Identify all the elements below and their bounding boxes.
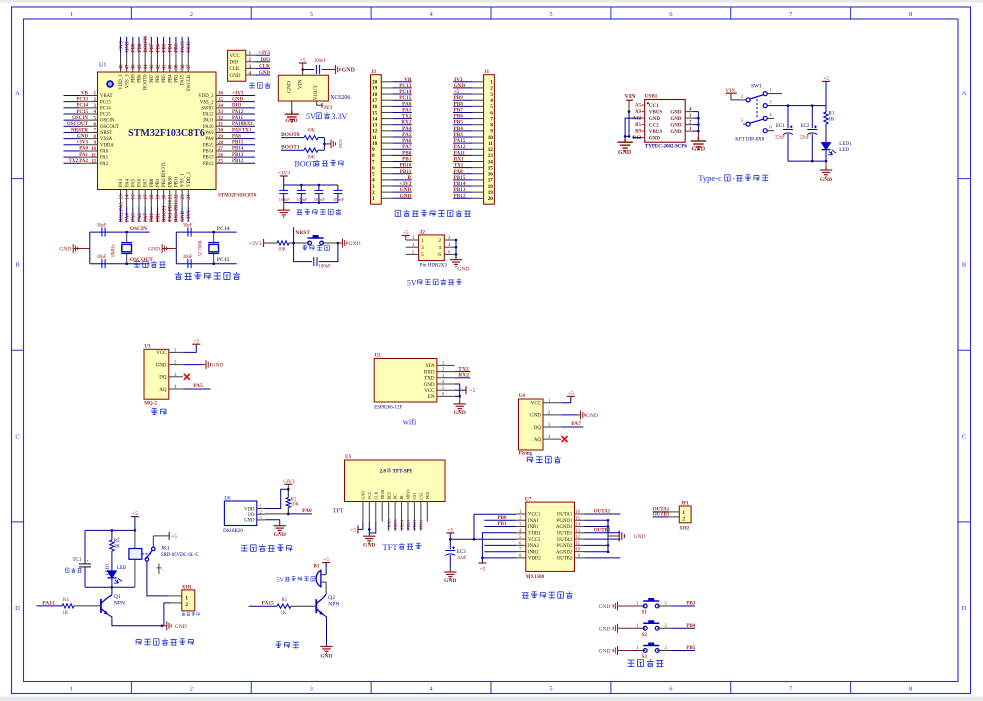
caption relay output [136,638,194,645]
svg-text:PB12: PB12 [412,519,417,530]
svg-text:PB10: PB10 [399,163,411,169]
svg-text:19: 19 [488,190,494,196]
GND of TFT [363,533,375,549]
svg-text:A: A [962,90,967,97]
svg-text:NRSTR: NRSTR [71,128,88,133]
svg-text:INA1: INA1 [528,519,540,524]
U1 top pin 41 PB5 net PB5 [162,37,167,83]
svg-text:GND: GND [338,140,343,149]
svg-text:GND: GND [586,413,598,419]
power +5 relay contact [153,532,177,547]
svg-text:GND: GND [175,624,187,630]
svg-text:1K: 1K [114,545,120,550]
wire SW1 pin3 to +5 rail [767,104,826,107]
svg-text:PA7: PA7 [571,421,581,427]
caption 5V step down 3.3V [306,112,348,121]
svg-text:Flying: Flying [519,452,533,457]
svg-text:EN: EN [428,395,435,400]
svg-text:30pF: 30pF [97,255,107,260]
svg-text:PB13: PB13 [454,187,466,193]
wire USB1 right gnd bus [693,112,700,133]
svg-text:47: 47 [125,64,130,70]
svg-text:PA15: PA15 [181,74,186,85]
svg-text:32.768K: 32.768K [199,240,204,257]
svg-text:GND: GND [287,81,293,93]
svg-text:PB9: PB9 [454,95,464,101]
svg-text:21: 21 [169,194,174,200]
U1 bottom pin 21 PB10 net TX3 PB10 [168,176,173,222]
resistor R2 10K [286,489,299,514]
svg-text:KFT DIP-8X8: KFT DIP-8X8 [735,137,764,142]
svg-text:6: 6 [372,165,375,171]
caption BOOT setting [295,160,344,169]
svg-text:USB1: USB1 [645,94,658,100]
U1 bottom pin 14 PA4 net PA4 [125,178,130,222]
svg-text:PC15: PC15 [399,95,412,101]
U1 bottom pin 13 PA3 net RX2 PA3 [119,178,124,222]
connector USB1 TYPEC [632,94,692,150]
GND of MQ-2 [183,360,223,369]
U1 top pin 42 PB6 net PB6 [156,37,161,83]
svg-text:VIN: VIN [625,94,637,100]
svg-text:16: 16 [372,104,378,110]
svg-text:16: 16 [488,172,494,178]
power +5 into XC6206 [299,58,307,76]
svg-text:VCC: VCC [230,54,241,59]
svg-text:+5: +5 [193,339,199,345]
wire TFT GND/VCC/CLK [358,522,376,533]
svg-text:PA4: PA4 [402,126,412,132]
svg-text:Q2: Q2 [328,595,335,601]
svg-text:PB15: PB15 [454,175,466,181]
svg-text:VDD1: VDD1 [528,532,541,537]
svg-text:GND: GND [670,130,682,135]
svg-text:DC: DC [393,494,398,500]
svg-text:A: A [15,90,20,97]
svg-text:PA0: PA0 [302,508,312,514]
power +5 EC3 [446,527,454,539]
U1 left pin 1 VBAT net VB [64,91,113,99]
GND of buzzer [320,643,332,659]
crystal circuit 8MHz [59,224,153,269]
U1 right pin 32 PA11 net PA11 [203,116,255,124]
svg-text:GND: GND [424,383,435,388]
U1 left pin 8 VSSA net GND [64,134,113,142]
svg-text:CC1: CC1 [649,104,659,109]
U5 pin 11 PEN [426,502,428,522]
wire U7 pin6 pin7 [484,544,516,546]
svg-text:VOUT: VOUT [313,84,319,100]
caption DC motor drive [522,591,572,598]
resistor R4 1K [62,598,101,616]
svg-text:1: 1 [490,80,493,86]
svg-text:SWCLK: SWCLK [187,74,192,91]
svg-text:+3V3: +3V3 [282,479,295,485]
app background strip top [0,0,983,3]
svg-text:INB2: INB2 [528,550,539,555]
svg-text:VCC: VCC [156,351,167,356]
svg-text:PB9: PB9 [132,43,137,52]
connector download port (VCC DIO CLK GND) [228,50,271,81]
wire RX2 from wifi [455,373,471,379]
svg-text:1K: 1K [829,118,836,123]
svg-text:GND: GND [125,41,130,53]
wire BOOT junction [323,138,325,151]
svg-text:PB7: PB7 [454,107,464,113]
svg-text:22: 22 [175,194,180,200]
svg-text:1K: 1K [281,611,287,616]
svg-text:40: 40 [169,64,174,70]
svg-text:1: 1 [421,238,424,244]
svg-text:OUTA1: OUTA1 [594,510,611,515]
svg-text:41: 41 [162,64,167,70]
svg-text:PB4: PB4 [454,126,464,132]
svg-text:PB15: PB15 [393,519,398,530]
push button reset [308,235,324,245]
svg-text:GND: GND [692,147,706,153]
svg-text:2: 2 [490,86,493,92]
svg-text:BL: BL [399,494,404,500]
svg-text:PB3: PB3 [686,602,695,607]
svg-text:9: 9 [490,129,493,135]
svg-text:3: 3 [421,245,424,251]
svg-text:DS18B20: DS18B20 [223,529,243,534]
svg-text:PA7: PA7 [144,213,149,222]
U1 top pin 46 PB9 net PB9 [131,37,136,83]
svg-text:A5: A5 [635,104,642,109]
svg-text:28: 28 [218,141,224,146]
svg-text:PB5: PB5 [686,646,695,651]
wire crystal top [176,231,236,233]
capacitor 30pF bottom (Y1 8MHz) [102,259,105,268]
svg-text:GND: GND [181,211,186,223]
svg-text:PB15: PB15 [232,141,244,146]
svg-text:20: 20 [488,196,494,202]
svg-text:PC15: PC15 [100,113,111,118]
svg-text:CLK: CLK [187,42,192,53]
svg-text:PB11: PB11 [400,169,412,175]
svg-text:19: 19 [156,194,161,200]
caption smoke [151,408,167,415]
svg-text:9: 9 [372,147,375,153]
svg-text:10uF: 10uF [457,556,467,561]
svg-text:STM32F103C8T6: STM32F103C8T6 [218,194,257,199]
svg-text:VDD_3: VDD_3 [119,74,124,90]
svg-text:PB0: PB0 [402,150,412,156]
svg-text:-: - [732,173,735,183]
node right of button [337,242,340,245]
wire +5 rail to U7 pin5 [450,538,516,541]
svg-text:GND: GND [274,532,286,538]
caption download port [249,82,270,88]
svg-text:PB5: PB5 [162,43,167,52]
svg-text:GND: GND [400,193,412,199]
svg-text:PA11: PA11 [454,150,466,156]
svg-text:10: 10 [488,135,494,141]
caption chip filter caps [297,209,342,215]
svg-text:100nF: 100nF [319,265,332,270]
svg-text:5V: 5V [306,112,316,121]
svg-text:PB15: PB15 [203,143,214,148]
svg-text:GND: GND [599,649,611,655]
U1 right pin 26 PB13 net PB13 [203,153,255,161]
svg-text:+3V3: +3V3 [119,41,124,53]
U1 right pin 33 PA12 net PA12 [203,110,255,118]
svg-text:VSS_1: VSS_1 [181,173,186,187]
svg-text:30pF: 30pF [97,224,107,229]
U5 pin 4 MOSI [381,502,383,522]
wire USB1 left gnd bus [624,118,642,138]
svg-text:PB9: PB9 [131,74,136,83]
capacitor 100uF filter 3 [314,184,326,204]
svg-text:JK1: JK1 [161,546,170,552]
svg-text:4: 4 [490,98,493,104]
svg-text:PB3: PB3 [175,74,180,83]
svg-text:12: 12 [575,535,580,540]
svg-text:PB3: PB3 [175,43,180,52]
svg-text:1: 1 [185,595,188,601]
caption reset circuit [302,245,329,251]
svg-text:+5: +5 [350,528,356,534]
caption tantalum cap [65,568,81,573]
svg-text:OSCIN: OSCIN [130,226,147,232]
svg-text:38: 38 [181,64,186,70]
svg-text:100uF: 100uF [314,197,326,202]
svg-text:B9: B9 [635,130,641,135]
svg-text:MOSI: MOSI [380,489,385,500]
svg-text:18: 18 [372,92,378,98]
svg-text:TC1: TC1 [73,558,82,563]
svg-text:PGND2: PGND2 [557,544,573,549]
U1 bottom pin 17 PA7 net PA7 [144,178,149,222]
svg-text:+5: +5 [403,230,409,236]
resistor 10K BOOT1 [304,148,318,152]
svg-text:PA5: PA5 [402,132,412,138]
svg-text:PB6: PB6 [454,114,464,120]
svg-text:GND: GND [599,604,611,610]
U1 right pin 31 PA10 net PA10RX1 [203,122,255,130]
svg-text:A9: A9 [635,110,642,115]
transistor Q2 NPN [316,594,339,615]
node PC14 [212,231,215,234]
svg-text:GND: GND [285,118,297,124]
svg-text:15: 15 [372,110,378,116]
svg-text:OUTB1: OUTB1 [653,512,670,517]
svg-text:16: 16 [138,194,143,200]
GND of BOOT [331,139,335,148]
sensor U6 DS18B20 [223,497,265,535]
svg-text:TFT: TFT [333,509,344,515]
wire crystal bottom [90,263,150,265]
svg-text:PB14: PB14 [203,150,214,155]
svg-text:GND: GND [649,117,661,122]
button S3 [599,643,696,661]
svg-text:PB1: PB1 [498,522,507,527]
svg-text:GND: GND [361,491,366,500]
GND of XC6206 [285,101,299,124]
svg-text:PB5: PB5 [162,74,167,83]
svg-text:PB12: PB12 [203,162,214,167]
svg-text:PB7: PB7 [150,43,155,52]
caption 5V backup power [407,279,462,288]
wire to U7 pin1 [474,514,516,539]
svg-text:1: 1 [372,196,375,202]
LED1 [822,142,853,161]
svg-text:3V3: 3V3 [323,106,332,111]
svg-text:+5: +5 [171,534,177,540]
wire buzzer to Q2 [325,582,327,594]
svg-text:5: 5 [490,104,493,110]
svg-text:7: 7 [372,159,375,165]
svg-text:GND: GND [649,136,661,141]
wire crystal top [90,231,150,233]
svg-text:INB1: INB1 [528,525,539,530]
svg-text:S1: S1 [642,611,648,616]
U1 top pin 37 SWCLK net CLK [187,37,192,91]
svg-text:12: 12 [372,129,378,135]
wire PB0 to U7 [484,516,516,521]
svg-text:42: 42 [156,64,161,70]
svg-text:PA11: PA11 [203,119,214,124]
GND of J2 [450,239,470,273]
GND of DS18B20 [265,520,286,538]
svg-text:+5: +5 [447,527,453,533]
caption independent buttons [627,659,663,667]
svg-text:VSS_2: VSS_2 [200,100,214,105]
svg-text:STA: STA [425,364,434,369]
svg-text:3: 3 [372,184,375,190]
svg-text:20: 20 [162,194,167,200]
U1 right pin 28 PB15 net PB15 [203,141,255,149]
GND of flame [561,410,598,419]
svg-text:VSS_3: VSS_3 [125,74,130,88]
svg-text:GND: GND [400,187,412,193]
svg-text:PC14: PC14 [100,106,111,111]
regulator XC6206 [278,75,350,101]
svg-text:CLK: CLK [259,64,270,69]
svg-text:PC14: PC14 [76,104,88,109]
svg-text:14: 14 [488,159,494,165]
svg-text:2: 2 [190,11,193,18]
svg-text:GND: GND [342,68,356,74]
svg-text:8: 8 [490,123,493,129]
svg-text:PEN: PEN [425,492,430,500]
capacitor 100nF filter 2 [296,184,308,204]
wire I/O to PA0 [265,508,312,515]
svg-text:GND: GND [259,71,271,76]
U5 pin 6 DC [393,502,398,531]
svg-text:PA3: PA3 [119,178,124,187]
VIN power at USB1 [625,94,637,112]
svg-text:GND: GND [230,74,241,79]
svg-text:35: 35 [218,98,224,103]
svg-text:PA5: PA5 [193,383,203,389]
svg-text:DIO: DIO [230,61,239,66]
svg-text:PA12: PA12 [42,600,55,606]
svg-text:VCC: VCC [367,491,372,500]
svg-text:2: 2 [260,509,262,514]
svg-text:31: 31 [218,123,224,128]
power +5 flame [561,391,575,403]
wire TX2 from wifi [455,366,471,372]
svg-text:30pF: 30pF [183,255,193,260]
wire U7 pin4/pin8 +5 [478,533,516,573]
svg-text:PA4: PA4 [125,213,130,222]
svg-text:1K: 1K [62,611,68,616]
U1 left pin 7 NRST net NRSTR [64,128,113,136]
U1 right pin 29 PA8 net PA8 [205,134,255,142]
svg-text:GND: GND [670,110,682,115]
wire Q1 emitter to gnd rail [108,614,163,627]
GND of U7 [608,531,645,542]
svg-text:PB7: PB7 [150,74,155,83]
svg-text:PB8: PB8 [454,101,464,107]
svg-text:CC2: CC2 [649,123,659,128]
svg-text:VSSA: VSSA [100,137,113,142]
svg-text:3: 3 [490,92,493,98]
svg-text:OUTA2: OUTA2 [557,538,573,543]
U1 left pin 5 OSCIN net OSCIN [64,116,115,124]
svg-text:GND: GND [444,578,456,584]
svg-text:PB13: PB13 [406,519,411,530]
svg-text:LED: LED [117,566,127,571]
MCU U1 STM32F103C8T6 [64,35,257,222]
svg-text:GND: GND [618,150,632,156]
U1 right pin 36 VDD_2 net +3V3 [198,91,255,99]
crystal Y1 8MHz [126,232,128,242]
module U2 ESP8266-12F [374,354,455,411]
U1 bottom pin 15 PA5 net PA5 [131,178,136,222]
wire crystal left rail [175,232,177,264]
svg-text:GND: GND [634,534,646,540]
resistor R5 1K buzzer [277,598,316,616]
svg-text:PC13: PC13 [76,97,88,102]
svg-text:D: D [962,605,967,612]
U1 left pin 2 PC13 net PC13 [64,97,112,105]
svg-text:PA8: PA8 [232,134,241,139]
svg-text:TYPEC-2002-9CP6: TYPEC-2002-9CP6 [645,145,687,150]
svg-text:VCC: VCC [531,402,542,407]
svg-text:PB0: PB0 [150,213,155,222]
switch SW1 KFT DIP-8X8 [725,84,782,143]
svg-text:NPN: NPN [114,600,125,606]
U5 pin 5 RES [386,502,391,531]
GND of crystal [73,248,90,250]
svg-text:100nF: 100nF [333,197,345,202]
svg-text:VDD_1: VDD_1 [187,171,192,187]
svg-text:LED2: LED2 [104,563,109,575]
svg-text:3V3: 3V3 [454,77,463,83]
svg-text:14: 14 [575,523,580,528]
svg-text:PA5: PA5 [132,213,137,222]
svg-text:CS2: CS2 [418,493,423,500]
svg-text:10: 10 [575,548,580,553]
svg-text:SWIO: SWIO [201,106,214,111]
svg-text:PA0: PA0 [100,150,109,155]
U1 bottom pin 23 VSS_1 net GND [181,173,186,222]
svg-text:PB1: PB1 [156,213,161,222]
wire PA12 to R4 [36,600,62,606]
svg-text:Q1: Q1 [114,594,121,600]
svg-text:+3V3: +3V3 [77,141,89,146]
svg-text:10: 10 [91,147,97,152]
svg-text:R: R [408,175,412,181]
svg-text:PB6: PB6 [156,43,161,52]
svg-text:TX2: TX2 [458,366,469,372]
svg-text:DQ: DQ [534,426,542,431]
svg-text:GND: GND [148,247,160,253]
svg-text:GND: GND [458,267,470,273]
